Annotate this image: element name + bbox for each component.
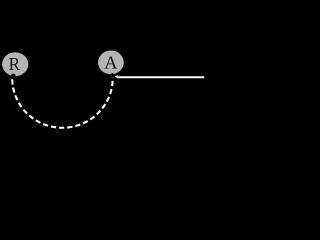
svg-text:A: A [104, 53, 118, 73]
arrowhead at R end of arc (dark notch) [11, 74, 16, 79]
arrowhead at A end of arc (dark notch) [110, 73, 115, 78]
svg-text:R: R [9, 54, 21, 74]
arrowhead of timeline line (white wedge pointing left into A) [115, 75, 118, 78]
node R circle [2, 52, 28, 76]
wire: timeline line right of A [117, 76, 204, 78]
wire: dashed transition arc from R to A (below, bulging down) [12, 74, 112, 127]
node A circle [98, 51, 124, 75]
